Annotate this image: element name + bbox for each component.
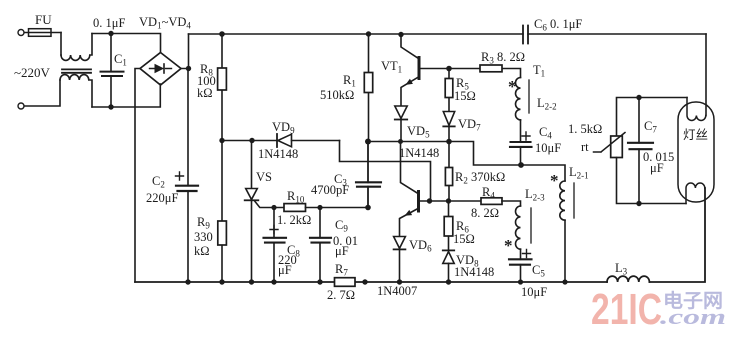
svg-text:*: *: [508, 77, 517, 96]
svg-text:R2 370kΩ: R2 370kΩ: [455, 170, 505, 186]
thyristor VS: [251, 141, 253, 189]
svg-text:L2‑2: L2‑2: [537, 96, 557, 112]
wire bridge right to DC+: [181, 34, 189, 69]
capacitor C4: [520, 120, 522, 165]
resistor R1: [368, 34, 370, 142]
net M midpoint wire: [368, 142, 565, 182]
resistor R7: [335, 278, 356, 287]
svg-text:μF: μF: [335, 244, 349, 258]
wire L2-1 to bottom rail: [564, 220, 566, 282]
svg-text:kΩ: kΩ: [197, 86, 213, 100]
diode VD5: [395, 106, 407, 118]
svg-text:R3 8. 2Ω: R3 8. 2Ω: [481, 50, 525, 66]
svg-text:.com: .com: [660, 304, 726, 329]
svg-text:1. 5kΩ: 1. 5kΩ: [568, 122, 602, 136]
trigger line net B: [222, 140, 277, 142]
inductor L1 upper winding: [61, 34, 92, 61]
svg-text:VD5: VD5: [407, 124, 430, 140]
svg-text:15Ω: 15Ω: [453, 232, 475, 246]
wire L1 to bridge bottom: [92, 84, 160, 107]
wire fuse to L1: [60, 33, 62, 56]
wire jog to VT2 base: [340, 141, 431, 202]
svg-text:L2‑3: L2‑3: [525, 187, 545, 203]
winding L2-2 of T1: [516, 78, 521, 120]
svg-text:4700pF: 4700pF: [311, 183, 349, 197]
resistor R4: [481, 198, 502, 205]
transistor VT1: [401, 35, 419, 59]
svg-text:C2: C2: [152, 174, 165, 190]
svg-text:VD1~VD4: VD1~VD4: [139, 15, 191, 31]
svg-text:510kΩ: 510kΩ: [320, 88, 354, 102]
svg-text:C5: C5: [532, 263, 545, 279]
svg-text:~220V: ~220V: [14, 65, 51, 80]
svg-text:μF: μF: [278, 263, 292, 277]
winding L2-1 of T1: [560, 181, 565, 220]
svg-text:L3: L3: [615, 261, 628, 277]
svg-text:*: *: [504, 236, 513, 255]
resistor R6: [448, 201, 450, 250]
svg-text:C9: C9: [335, 218, 348, 234]
capacitor C3: [367, 142, 369, 208]
resistor R9: [221, 141, 223, 283]
capacitor C2: [187, 69, 189, 283]
svg-text:2. 7Ω: 2. 7Ω: [327, 288, 355, 302]
terminal lower AC: [18, 103, 24, 109]
terminal upper AC: [18, 30, 24, 36]
svg-text:C7: C7: [644, 119, 657, 135]
inductor L1 lower winding: [60, 75, 92, 107]
VS gate wire: [255, 202, 284, 208]
svg-text:μF: μF: [650, 161, 664, 175]
svg-text:rt: rt: [581, 140, 589, 154]
svg-text:C6 0. 1μF: C6 0. 1μF: [534, 17, 582, 33]
svg-text:10μF: 10μF: [521, 285, 547, 299]
svg-text:R7: R7: [335, 262, 348, 278]
diode VD7: [443, 112, 454, 126]
svg-text:1N4148: 1N4148: [454, 265, 494, 279]
svg-text:1N4007: 1N4007: [377, 284, 417, 298]
resistor R10: [284, 204, 306, 212]
svg-text:VD6: VD6: [409, 238, 432, 254]
lamp tube: [678, 102, 714, 202]
svg-text:R10: R10: [287, 189, 305, 205]
transistor VT2: [417, 192, 420, 212]
L1 core: [62, 69, 91, 72]
winding L2-3 of T1: [516, 206, 521, 249]
resistor R5: [448, 69, 450, 112]
svg-text:灯丝: 灯丝: [683, 128, 708, 142]
svg-text:15Ω: 15Ω: [454, 89, 476, 103]
bottom rail: [135, 281, 607, 283]
capacitor C7: [638, 98, 640, 204]
resistor R8: [221, 34, 223, 141]
svg-text:8. 2Ω: 8. 2Ω: [471, 206, 499, 220]
fuse FU: [25, 32, 62, 34]
svg-text:*: *: [550, 171, 559, 190]
svg-text:R9: R9: [197, 215, 210, 231]
svg-text:330: 330: [194, 230, 213, 244]
svg-text:0. 1μF: 0. 1μF: [93, 16, 125, 30]
svg-text:R4: R4: [482, 185, 495, 201]
svg-text:C4: C4: [539, 125, 552, 141]
svg-text:C1: C1: [114, 52, 127, 68]
svg-text:1. 2kΩ: 1. 2kΩ: [277, 213, 311, 227]
diode VD9: [276, 134, 278, 147]
svg-text:kΩ: kΩ: [194, 244, 210, 258]
wire lower AC to L1: [25, 80, 61, 106]
diode VD8: [443, 249, 454, 251]
svg-text:FU: FU: [35, 12, 52, 27]
svg-text:VD7: VD7: [458, 117, 481, 133]
svg-text:VD9: VD9: [272, 120, 295, 136]
resistor R2: [448, 142, 450, 202]
svg-text:R1: R1: [343, 73, 356, 89]
svg-text:T1: T1: [533, 63, 545, 79]
capacitor C8: [273, 208, 275, 283]
top rail DC+: [189, 33, 707, 35]
svg-text:21IC: 21IC: [591, 285, 662, 334]
svg-text:1N4148: 1N4148: [399, 146, 439, 160]
wire bridge left to DC-: [135, 69, 141, 283]
svg-text:1N4148: 1N4148: [258, 147, 298, 161]
svg-text:VS: VS: [256, 170, 272, 184]
wire lamp right top: [705, 34, 707, 116]
diode VD6: [394, 237, 406, 249]
capacitor C6 plates: [523, 26, 528, 44]
lamp top filament: [687, 98, 706, 121]
capacitor C5: [520, 249, 522, 282]
wire rt bottom / lamp bottom-left: [617, 158, 687, 204]
bridge rectifier VD1~VD4: [140, 53, 181, 86]
PTC thermistor rt: [611, 136, 623, 158]
svg-text:220μF: 220μF: [146, 191, 178, 205]
svg-text:10μF: 10μF: [535, 141, 561, 155]
resistor R3: [449, 69, 521, 78]
transistor VT2 collector column: [401, 142, 419, 194]
lamp bottom filament: [686, 183, 705, 204]
capacitor C1: [110, 34, 112, 108]
svg-text:L2‑1: L2‑1: [569, 165, 589, 181]
inductor L3: [607, 276, 649, 282]
capacitor C9: [319, 208, 321, 283]
svg-text:VT1: VT1: [381, 59, 402, 75]
wire rt top / lamp top-left: [617, 98, 688, 137]
wire L1 top to bridge: [92, 34, 161, 53]
